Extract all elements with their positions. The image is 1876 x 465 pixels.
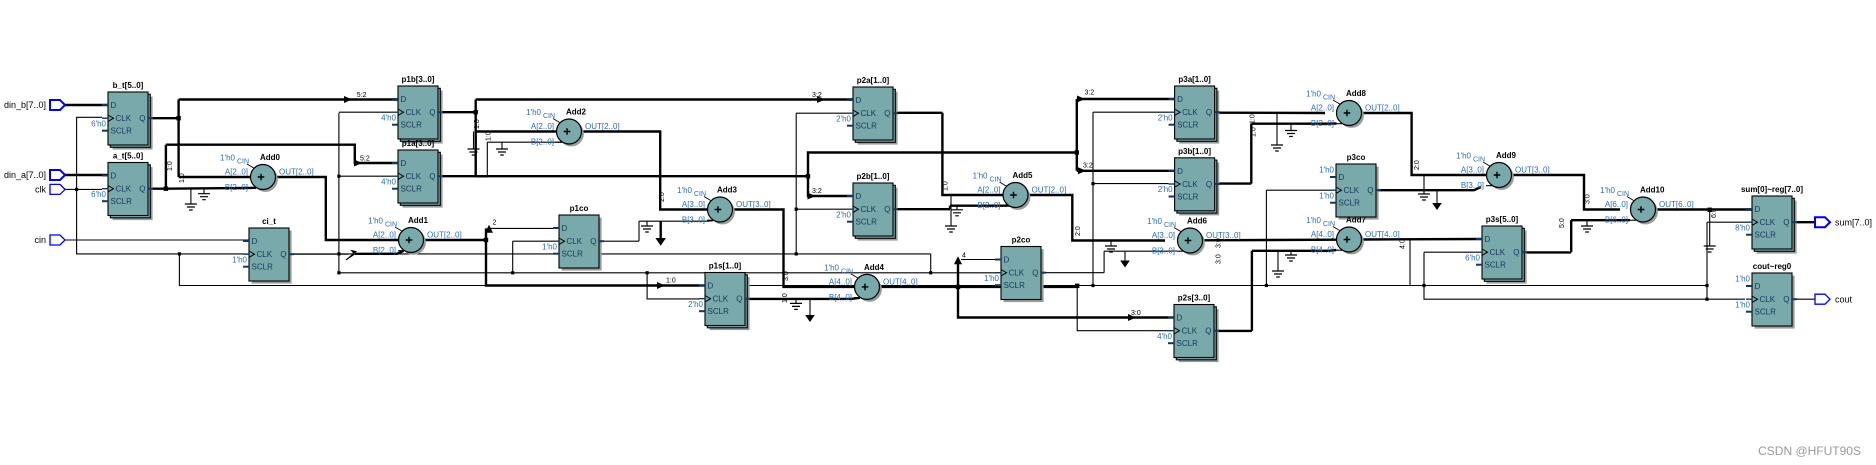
svg-text:Add0: Add0 — [260, 153, 281, 162]
svg-text:1'h0: 1'h0 — [368, 217, 383, 226]
svg-text:3:0: 3:0 — [1131, 310, 1141, 317]
svg-text:SCLR: SCLR — [1004, 281, 1026, 290]
svg-text:1'h0: 1'h0 — [1735, 300, 1750, 309]
svg-text:p2s[3..0]: p2s[3..0] — [1178, 294, 1211, 303]
svg-text:OUT[2..0]: OUT[2..0] — [1032, 186, 1067, 195]
svg-text:1'h0: 1'h0 — [1147, 217, 1162, 226]
svg-text:p1co: p1co — [570, 204, 589, 213]
svg-text:Add7: Add7 — [1346, 216, 1367, 225]
svg-text:OUT[3..0]: OUT[3..0] — [1206, 231, 1241, 240]
svg-text:OUT[3..0]: OUT[3..0] — [1515, 166, 1550, 175]
svg-text:D: D — [856, 192, 862, 201]
svg-text:3:0: 3:0 — [1216, 254, 1223, 264]
svg-text:Q: Q — [590, 237, 596, 246]
svg-text:Q: Q — [1206, 180, 1212, 189]
svg-text:D: D — [111, 101, 117, 110]
svg-text:D: D — [1004, 256, 1010, 265]
svg-text:OUT[2..0]: OUT[2..0] — [1365, 104, 1400, 113]
svg-text:1'h0: 1'h0 — [1306, 90, 1321, 99]
svg-text:Q: Q — [429, 108, 435, 117]
svg-text:CLK: CLK — [406, 108, 422, 117]
svg-text:B[3..0]: B[3..0] — [1461, 181, 1484, 190]
svg-text:D: D — [708, 282, 714, 291]
svg-text:1'h0: 1'h0 — [1456, 152, 1471, 161]
svg-text:1:0: 1:0 — [167, 161, 174, 171]
svg-text:p3a[1..0]: p3a[1..0] — [1178, 75, 1211, 84]
svg-text:SCLR: SCLR — [708, 307, 730, 316]
svg-text:D: D — [1485, 235, 1491, 244]
svg-text:B[3..0]: B[3..0] — [1152, 247, 1175, 256]
svg-text:B[2..0]: B[2..0] — [531, 138, 554, 147]
svg-text:CLK: CLK — [861, 109, 877, 118]
svg-text:D: D — [562, 224, 568, 233]
svg-text:6'h0: 6'h0 — [1465, 253, 1480, 262]
svg-text:SCLR: SCLR — [111, 197, 133, 206]
svg-text:Add4: Add4 — [864, 263, 885, 272]
svg-text:Q: Q — [1206, 108, 1212, 117]
svg-text:2'h0: 2'h0 — [836, 210, 851, 219]
svg-text:SCLR: SCLR — [1755, 231, 1777, 240]
svg-text:ci_t: ci_t — [262, 217, 276, 226]
svg-text:5:0: 5:0 — [1559, 218, 1566, 228]
svg-text:1:0: 1:0 — [782, 293, 789, 303]
svg-text:D: D — [1755, 205, 1761, 214]
svg-text:p1b[3..0]: p1b[3..0] — [402, 75, 435, 84]
svg-text:6:0: 6:0 — [1711, 208, 1718, 218]
svg-text:p3co: p3co — [1347, 153, 1366, 162]
svg-text:clk: clk — [35, 185, 46, 195]
svg-text:1'h0: 1'h0 — [1600, 186, 1615, 195]
svg-text:OUT[2..0]: OUT[2..0] — [279, 168, 314, 177]
svg-text:b_t[5..0]: b_t[5..0] — [113, 81, 144, 90]
svg-text:Q: Q — [1783, 295, 1789, 304]
svg-text:CLK: CLK — [1009, 269, 1025, 278]
svg-text:CSDN @HFUT90S: CSDN @HFUT90S — [1758, 444, 1861, 458]
svg-text:SCLR: SCLR — [1485, 261, 1507, 270]
svg-text:CLK: CLK — [567, 237, 583, 246]
svg-text:din_a[7..0]: din_a[7..0] — [4, 170, 46, 180]
svg-text:Q: Q — [139, 185, 145, 194]
svg-text:CLK: CLK — [1182, 327, 1198, 336]
svg-text:1'h0: 1'h0 — [542, 242, 557, 251]
svg-text:6'h0: 6'h0 — [91, 190, 106, 199]
svg-text:p1s[1..0]: p1s[1..0] — [709, 262, 742, 271]
svg-text:p2b[1..0]: p2b[1..0] — [857, 172, 890, 181]
svg-text:B[3..0]: B[3..0] — [682, 216, 705, 225]
svg-text:SCLR: SCLR — [1755, 308, 1777, 317]
svg-text:2:0: 2:0 — [1414, 160, 1421, 170]
svg-text:3:2: 3:2 — [812, 188, 822, 195]
svg-text:Q: Q — [736, 295, 742, 304]
svg-text:SCLR: SCLR — [111, 127, 133, 136]
svg-text:A[4..0]: A[4..0] — [1311, 230, 1334, 239]
svg-text:4:0: 4:0 — [1400, 239, 1407, 249]
svg-text:3:2: 3:2 — [1083, 162, 1093, 169]
svg-text:CLK: CLK — [1490, 248, 1506, 257]
svg-text:2:0: 2:0 — [1075, 226, 1082, 236]
svg-text:A[3..0]: A[3..0] — [1152, 231, 1175, 240]
svg-text:Q: Q — [884, 205, 890, 214]
svg-text:A[2..0]: A[2..0] — [1311, 104, 1334, 113]
svg-text:p3b[1..0]: p3b[1..0] — [1178, 147, 1211, 156]
svg-text:SCLR: SCLR — [1339, 199, 1361, 208]
svg-text:SCLR: SCLR — [1177, 193, 1199, 202]
svg-text:5:2: 5:2 — [360, 156, 370, 163]
svg-text:1:0: 1:0 — [943, 181, 950, 191]
svg-text:5:2: 5:2 — [357, 92, 367, 99]
svg-text:D: D — [1177, 167, 1183, 176]
svg-text:B[4..0]: B[4..0] — [829, 293, 852, 302]
svg-text:1'h0: 1'h0 — [1306, 216, 1321, 225]
svg-text:Q: Q — [280, 250, 286, 259]
svg-text:SCLR: SCLR — [401, 185, 423, 194]
svg-text:CLK: CLK — [713, 295, 729, 304]
svg-text:D: D — [252, 237, 258, 246]
svg-text:cout: cout — [1835, 294, 1853, 304]
svg-text:B[4..0]: B[4..0] — [1311, 246, 1334, 255]
svg-text:p3s[5..0]: p3s[5..0] — [1486, 215, 1519, 224]
svg-text:OUT[3..0]: OUT[3..0] — [736, 200, 771, 209]
svg-text:p2a[1..0]: p2a[1..0] — [857, 76, 890, 85]
svg-text:p1a[3..0]: p1a[3..0] — [402, 139, 435, 148]
svg-text:A[2..0]: A[2..0] — [977, 186, 1000, 195]
svg-text:CLK: CLK — [116, 185, 132, 194]
svg-text:D: D — [401, 95, 407, 104]
svg-text:1'h0: 1'h0 — [526, 108, 541, 117]
svg-text:SCLR: SCLR — [1177, 339, 1199, 348]
svg-text:SCLR: SCLR — [252, 263, 274, 272]
svg-text:p2co: p2co — [1012, 236, 1031, 245]
svg-text:1'h0: 1'h0 — [1319, 166, 1334, 175]
svg-text:1'h0: 1'h0 — [232, 255, 247, 264]
svg-text:1'h0: 1'h0 — [1735, 275, 1750, 284]
svg-text:A[4..0]: A[4..0] — [829, 277, 852, 286]
svg-text:CLK: CLK — [861, 205, 877, 214]
svg-text:Add3: Add3 — [717, 186, 738, 195]
svg-text:a_t[5..0]: a_t[5..0] — [113, 152, 144, 161]
svg-text:Q: Q — [1032, 269, 1038, 278]
svg-text:1'h0: 1'h0 — [220, 154, 235, 163]
svg-text:1'h0: 1'h0 — [1319, 191, 1334, 200]
svg-text:SCLR: SCLR — [856, 218, 878, 227]
svg-text:A[3..0]: A[3..0] — [1461, 166, 1484, 175]
svg-text:D: D — [1177, 95, 1183, 104]
svg-text:D: D — [1339, 173, 1345, 182]
svg-text:3:2: 3:2 — [812, 92, 822, 99]
svg-text:OUT[2..0]: OUT[2..0] — [427, 231, 462, 240]
svg-text:A[3..0]: A[3..0] — [682, 200, 705, 209]
svg-text:1'h0: 1'h0 — [984, 274, 999, 283]
svg-text:OUT[2..0]: OUT[2..0] — [585, 122, 620, 131]
svg-text:A[2..0]: A[2..0] — [531, 122, 554, 131]
svg-text:Add9: Add9 — [1496, 151, 1517, 160]
svg-text:A[2..0]: A[2..0] — [225, 168, 248, 177]
svg-text:Add5: Add5 — [1013, 171, 1034, 180]
svg-text:A[2..0]: A[2..0] — [373, 231, 396, 240]
svg-text:1:0: 1:0 — [474, 119, 481, 129]
svg-text:2'h0: 2'h0 — [688, 300, 703, 309]
svg-text:OUT[6..0]: OUT[6..0] — [1659, 200, 1694, 209]
svg-text:Q: Q — [139, 114, 145, 123]
svg-text:CLK: CLK — [257, 250, 273, 259]
svg-text:3:0: 3:0 — [783, 271, 790, 281]
svg-text:3:0: 3:0 — [1585, 194, 1592, 204]
svg-text:4'h0: 4'h0 — [381, 113, 396, 122]
svg-text:2:0: 2:0 — [659, 192, 666, 202]
svg-text:1:0: 1:0 — [1251, 127, 1258, 137]
svg-text:OUT[4..0]: OUT[4..0] — [1365, 230, 1400, 239]
svg-text:1'h0: 1'h0 — [677, 186, 692, 195]
svg-text:D: D — [856, 96, 862, 105]
svg-text:Add10: Add10 — [1640, 186, 1665, 195]
svg-text:2'h0: 2'h0 — [1158, 185, 1173, 194]
svg-text:B[2..0]: B[2..0] — [225, 183, 248, 192]
svg-text:D: D — [1177, 314, 1183, 323]
svg-text:cout~reg0: cout~reg0 — [1753, 262, 1792, 271]
svg-text:1:0: 1:0 — [179, 173, 186, 183]
svg-text:Q: Q — [1513, 248, 1519, 257]
svg-text:sum[7..0]: sum[7..0] — [1835, 217, 1872, 227]
svg-text:CLK: CLK — [116, 114, 132, 123]
svg-text:1:0: 1:0 — [486, 131, 493, 141]
svg-text:CLK: CLK — [406, 172, 422, 181]
svg-text:D: D — [401, 159, 407, 168]
svg-text:SCLR: SCLR — [562, 250, 584, 259]
svg-text:1'h0: 1'h0 — [973, 172, 988, 181]
svg-text:D: D — [1755, 282, 1761, 291]
svg-text:CLK: CLK — [1760, 295, 1776, 304]
svg-text:6'h0: 6'h0 — [91, 119, 106, 128]
svg-text:CLK: CLK — [1344, 186, 1360, 195]
svg-text:B[6..0]: B[6..0] — [1605, 216, 1628, 225]
svg-text:CLK: CLK — [1182, 180, 1198, 189]
svg-text:A[6..0]: A[6..0] — [1605, 200, 1628, 209]
svg-text:8'h0: 8'h0 — [1735, 223, 1750, 232]
svg-text:2'h0: 2'h0 — [1158, 113, 1173, 122]
svg-text:sum[0]~reg[7..0]: sum[0]~reg[7..0] — [1741, 185, 1803, 194]
svg-text:CLK: CLK — [1760, 218, 1776, 227]
svg-text:Add2: Add2 — [566, 108, 587, 117]
svg-text:B[2..0]: B[2..0] — [977, 201, 1000, 210]
svg-text:Add1: Add1 — [408, 216, 429, 225]
svg-text:1:0: 1:0 — [666, 278, 676, 285]
svg-text:SCLR: SCLR — [856, 122, 878, 131]
svg-text:2: 2 — [493, 220, 497, 227]
svg-text:2'h0: 2'h0 — [836, 114, 851, 123]
svg-text:din_b[7..0]: din_b[7..0] — [4, 100, 46, 110]
svg-text:B[2..0]: B[2..0] — [1311, 119, 1334, 128]
svg-text:Add6: Add6 — [1187, 217, 1208, 226]
svg-text:4'h0: 4'h0 — [381, 177, 396, 186]
svg-text:SCLR: SCLR — [401, 121, 423, 130]
svg-text:Q: Q — [1367, 186, 1373, 195]
svg-text:B[2..0]: B[2..0] — [373, 246, 396, 255]
svg-text:cin: cin — [34, 235, 46, 245]
svg-text:Add8: Add8 — [1346, 89, 1367, 98]
svg-text:D: D — [111, 172, 117, 181]
svg-text:4'h0: 4'h0 — [1157, 332, 1172, 341]
svg-text:Q: Q — [429, 172, 435, 181]
svg-text:CLK: CLK — [1182, 108, 1198, 117]
svg-text:OUT[4..0]: OUT[4..0] — [883, 277, 918, 286]
svg-text:4: 4 — [962, 253, 966, 260]
svg-text:SCLR: SCLR — [1177, 121, 1199, 130]
svg-text:Q: Q — [1783, 218, 1789, 227]
svg-text:1'h0: 1'h0 — [824, 263, 839, 272]
svg-text:3:2: 3:2 — [1085, 90, 1095, 97]
svg-text:Q: Q — [884, 109, 890, 118]
svg-text:Q: Q — [1205, 327, 1211, 336]
